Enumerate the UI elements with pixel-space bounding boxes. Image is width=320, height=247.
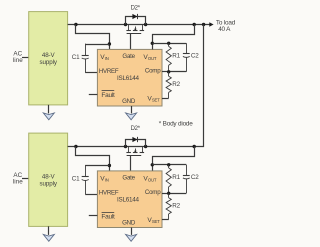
wire: bus to V_OUT pin xyxy=(153,147,195,171)
svg-text:C2: C2 xyxy=(191,174,199,181)
capacitor C1 (b) xyxy=(82,165,89,194)
svg-text:supply: supply xyxy=(40,59,58,66)
svg-text:ISL6144: ISL6144 xyxy=(117,197,139,204)
AC line input (top supply) xyxy=(13,51,23,64)
wire: output tie bus (vertical) xyxy=(203,25,205,147)
svg-text:Gate: Gate xyxy=(122,53,135,60)
48-V supply PSb xyxy=(29,133,68,226)
junction: V_IN / C1 node xyxy=(108,164,111,167)
junction: Comp node xyxy=(167,192,170,195)
svg-text:line: line xyxy=(13,178,23,185)
wire: C2 bottom to Comp node xyxy=(169,193,187,195)
junction: bus to V_OUT sense xyxy=(193,23,196,26)
resistor R1 (b) xyxy=(166,165,171,194)
svg-text:SET: SET xyxy=(152,98,160,103)
junction: output tie point xyxy=(202,23,205,26)
wire: gate lead to IC Gate pin xyxy=(130,34,132,50)
junction: V_IN / C1 node xyxy=(108,42,111,45)
svg-text:C1: C1 xyxy=(72,54,80,61)
svg-text:R2: R2 xyxy=(172,203,180,210)
capacitor C2 (a) xyxy=(183,43,190,72)
capacitor C1 (a) xyxy=(82,44,89,73)
wire: AC line to supply xyxy=(22,178,29,180)
diode D2 (b) body diode branch xyxy=(126,137,146,147)
wire: bus to V_IN pin xyxy=(76,147,110,171)
op-amp controller Ua ISL6144 xyxy=(97,49,162,106)
wire: Fault pin stub xyxy=(89,215,98,217)
wire: to-load arrow xyxy=(209,22,213,26)
junction: R1 top xyxy=(167,163,170,166)
svg-text:R1: R1 xyxy=(172,53,180,60)
pin label Fault (active low) xyxy=(101,91,115,100)
svg-text:48-V: 48-V xyxy=(42,174,56,181)
wire: gate lead to IC Gate pin xyxy=(130,156,132,171)
resistor R2 (b) xyxy=(166,193,171,219)
MOSFET Qb pass transistor xyxy=(126,147,144,156)
diode D2 (a) body diode branch xyxy=(126,14,146,25)
pin label V_IN xyxy=(100,54,108,61)
svg-text:SET: SET xyxy=(152,219,160,224)
svg-text:D2*: D2* xyxy=(131,6,141,12)
svg-text:line: line xyxy=(13,57,23,64)
wire: bus to V_IN pin xyxy=(76,25,110,50)
junction: FET drain xyxy=(124,145,127,148)
label: To load 40 A xyxy=(216,19,236,33)
svg-text:IN: IN xyxy=(105,56,109,61)
wire: R2 to V_SET pin xyxy=(162,98,169,100)
wire: C1 to HVREF pin xyxy=(85,72,97,74)
wire: Comp pin xyxy=(162,193,169,195)
svg-text:Comp: Comp xyxy=(145,68,161,75)
svg-text:R2: R2 xyxy=(172,81,180,88)
wire: C1 top branch xyxy=(85,165,109,167)
svg-text:R1: R1 xyxy=(172,174,180,181)
MOSFET Qa pass transistor xyxy=(126,25,144,34)
svg-text:ISL6144: ISL6144 xyxy=(117,75,139,82)
svg-text:HVREF: HVREF xyxy=(99,68,119,75)
ground (supply a) xyxy=(43,105,54,120)
ground (supply b) xyxy=(43,226,54,241)
wire: Fault pin stub xyxy=(89,94,98,96)
ground (IC GND a) xyxy=(126,106,137,120)
op-amp controller Ub ISL6144 xyxy=(97,171,162,228)
svg-text:HVREF: HVREF xyxy=(99,190,119,197)
svg-text:D2*: D2* xyxy=(131,126,141,132)
junction: Comp node xyxy=(167,70,170,73)
wire: C1 to HVREF pin xyxy=(85,194,97,196)
junction: bus to V_OUT sense xyxy=(193,145,196,148)
svg-text:OUT: OUT xyxy=(148,56,157,61)
svg-text:40 A: 40 A xyxy=(218,26,231,33)
wire: main output bus (a) xyxy=(68,24,210,26)
svg-text:IN: IN xyxy=(105,178,109,183)
junction: FET drain xyxy=(124,23,127,26)
svg-text:GND: GND xyxy=(122,98,136,105)
junction: V_OUT / divider node xyxy=(151,42,154,45)
capacitor C2 (b) xyxy=(183,165,190,194)
ground (IC GND b) xyxy=(126,228,137,242)
pin label V_IN xyxy=(100,175,108,182)
svg-text:supply: supply xyxy=(40,181,58,188)
pin label V_SET xyxy=(147,217,160,224)
svg-text:48-V: 48-V xyxy=(42,52,56,59)
wire: main output bus (b) xyxy=(68,146,205,148)
svg-text:Fault: Fault xyxy=(101,92,115,99)
svg-text:Fault: Fault xyxy=(101,214,115,221)
resistor R2 (a) xyxy=(166,72,171,98)
junction: FET source xyxy=(144,145,147,148)
pin label V_OUT xyxy=(143,176,156,183)
svg-text:GND: GND xyxy=(122,220,136,227)
pin label V_OUT xyxy=(143,54,156,61)
svg-text:Gate: Gate xyxy=(122,175,135,182)
wire: C1 top branch xyxy=(85,44,109,46)
svg-text:Comp: Comp xyxy=(145,189,161,196)
resistor R1 (a) xyxy=(166,43,171,72)
junction: V_OUT / divider node xyxy=(151,163,154,166)
svg-text:C2: C2 xyxy=(191,53,199,60)
wire: bus to V_OUT pin xyxy=(153,25,195,50)
junction: bus to V_IN drop xyxy=(74,145,77,148)
junction: FET source xyxy=(144,23,147,26)
AC line input (bottom supply) xyxy=(13,172,23,185)
wire: R2 to V_SET pin xyxy=(162,219,169,221)
junction: bus to V_IN drop xyxy=(74,23,77,26)
wire: C2 bottom to Comp node xyxy=(169,71,187,73)
wire: divider top rail xyxy=(152,164,186,166)
svg-text:C1: C1 xyxy=(72,176,80,183)
wire: AC line to supply xyxy=(22,57,29,59)
48-V supply PSa xyxy=(29,12,68,105)
pin label Fault (active low) xyxy=(101,213,115,221)
junction: R1 top xyxy=(167,42,170,45)
wire: Comp pin xyxy=(162,71,169,73)
svg-text:* Body diode: * Body diode xyxy=(159,121,193,128)
pin label V_SET xyxy=(147,95,160,102)
wire: divider top rail xyxy=(152,43,186,45)
svg-text:OUT: OUT xyxy=(148,178,157,183)
